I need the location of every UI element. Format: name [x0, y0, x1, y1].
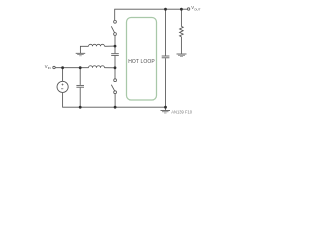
node R1 top [180, 8, 183, 11]
terminal VOUT [187, 8, 189, 10]
switch S1 contact circles [114, 20, 117, 23]
node source top [61, 66, 64, 69]
ground (load) [177, 53, 187, 55]
wire upper switch to node A [114, 35, 116, 46]
wire L2 to node B [105, 67, 116, 69]
wire source bottom + bottom rail [63, 93, 166, 108]
wire lower switch top stub [114, 68, 116, 79]
voltage source V1 [57, 81, 68, 92]
wire lower switch bottom stub [114, 94, 116, 108]
node C1 bottom [79, 106, 82, 109]
inductor L1 (upper) [89, 44, 105, 46]
label VOUT [191, 5, 200, 11]
label VIN [45, 64, 51, 70]
resistor R1 (load) [180, 9, 182, 26]
wire node A to capacitor C2 [114, 46, 116, 53]
wire top rail [115, 9, 188, 20]
node A (switch node upper) [114, 45, 117, 48]
ground (bottom rail) [165, 107, 167, 110]
wire C2 to lower rail node [114, 56, 116, 68]
node C3 top [164, 8, 167, 11]
hot loop box [127, 18, 157, 101]
node S2 bottom [114, 106, 117, 109]
ground (upper left) [76, 52, 86, 54]
switch S2 lever [111, 85, 114, 91]
switch S1 lever [111, 26, 114, 32]
switch S2 contact circles [114, 79, 117, 82]
capacitor C1 (input) [79, 68, 81, 85]
svg-text:OUT: OUT [194, 7, 201, 11]
wire source top stub [62, 68, 64, 82]
junction dots [61, 8, 183, 109]
source polarity marks [61, 84, 63, 89]
svg-text:AN139 F10: AN139 F10 [171, 110, 192, 115]
node ground bottom [164, 106, 167, 109]
terminal VIN [53, 66, 55, 68]
inductor L2 (lower) [89, 66, 105, 68]
capacitor C3 (output) [165, 9, 167, 55]
capacitor C2 (hot loop bypass) [111, 53, 119, 55]
svg-text:HOT LOOP: HOT LOOP [128, 59, 155, 65]
node B (lower switch node) [114, 66, 117, 69]
wire upper inductor branch from ground [80, 46, 88, 53]
wire lower rail (VIN) [55, 67, 88, 69]
node C1 top [79, 66, 82, 69]
svg-text:IN: IN [48, 66, 51, 70]
wire L1 to node A [105, 45, 116, 47]
